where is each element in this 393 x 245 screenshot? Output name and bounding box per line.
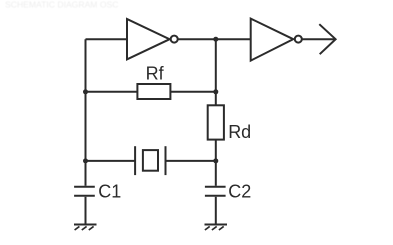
output arrow xyxy=(319,24,335,54)
capacitor C2 bottom plate xyxy=(205,195,226,197)
resistor Rf xyxy=(137,84,170,99)
wire: U2 output xyxy=(302,38,336,40)
inverter U2 triangle xyxy=(251,19,294,61)
node: junction U1 out / middle rail xyxy=(213,37,218,42)
capacitor C2 top plate xyxy=(205,186,226,188)
wire: C1 to ground xyxy=(85,197,87,224)
wire: left rail vertical xyxy=(85,39,87,186)
wire: input to inverter 1 xyxy=(86,38,128,40)
wire: Rf left lead xyxy=(86,91,138,93)
ground symbol GND1 xyxy=(74,224,97,226)
svg-text:Rd: Rd xyxy=(228,122,251,142)
wire: C2 to ground xyxy=(215,197,217,224)
node: junction left rail / Rf xyxy=(83,89,88,94)
svg-text:C2: C2 xyxy=(228,182,251,202)
crystal X1 right electrode xyxy=(165,146,167,175)
inverter U2 bubble xyxy=(295,36,302,43)
capacitor C1 bottom plate xyxy=(74,195,95,197)
capacitor C1 top plate xyxy=(74,186,95,188)
wire: Rf right lead xyxy=(170,91,215,93)
ground symbol GND2 xyxy=(205,224,228,226)
svg-text:SCHEMATIC DIAGRAM OSC: SCHEMATIC DIAGRAM OSC xyxy=(5,0,118,10)
wire: crystal right lead xyxy=(166,160,216,162)
node: junction Rf / middle rail xyxy=(213,89,218,94)
node: junction left rail / crystal xyxy=(83,158,88,163)
node: junction crystal / middle rail xyxy=(213,158,218,163)
inverter U1 triangle xyxy=(127,19,170,59)
wire: middle rail vertical xyxy=(215,39,217,105)
crystal X1 left electrode xyxy=(134,146,136,175)
faint watermark text top-left xyxy=(5,0,118,10)
crystal X1 body xyxy=(143,150,158,171)
svg-text:Rf: Rf xyxy=(146,63,165,83)
wire: crystal left lead xyxy=(86,160,136,162)
resistor Rd xyxy=(208,105,224,139)
wire: U1 output to U2 input xyxy=(178,38,251,40)
inverter U1 bubble xyxy=(171,36,178,43)
svg-text:C1: C1 xyxy=(98,182,121,202)
wire: Rd bottom to crystal node xyxy=(215,140,217,186)
